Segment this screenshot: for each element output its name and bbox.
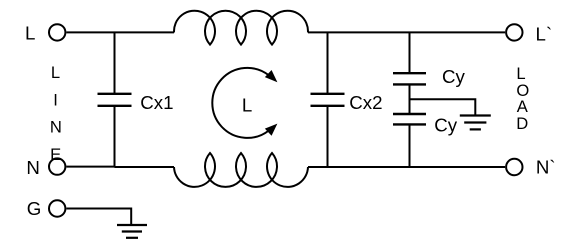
svg-text:Cy: Cy — [434, 114, 457, 135]
wire Cx1 top — [114, 32, 116, 93]
svg-text:L: L — [25, 22, 35, 43]
arrowhead top — [265, 70, 278, 82]
svg-text:L: L — [51, 63, 60, 82]
wire Cy mid — [409, 84, 411, 114]
svg-text:E: E — [50, 145, 61, 164]
svg-text:I: I — [53, 90, 58, 109]
wire choke to N` — [308, 166, 505, 168]
svg-text:L: L — [242, 94, 252, 115]
wire Cy mid to ground — [410, 99, 476, 115]
ground right — [460, 116, 491, 130]
inductor L top winding — [174, 11, 308, 45]
wire Cy1 top — [409, 32, 411, 73]
svg-text:N: N — [26, 157, 39, 178]
wire L to choke — [66, 31, 174, 33]
svg-text:D: D — [516, 114, 528, 133]
capacitor Cy2 — [393, 114, 426, 124]
wire choke to L` — [308, 31, 505, 33]
terminal L` — [506, 24, 522, 40]
svg-text:Cy: Cy — [442, 66, 465, 87]
terminal N` — [506, 159, 522, 175]
ground G — [117, 225, 147, 238]
terminal N — [49, 158, 65, 174]
svg-text:N`: N` — [536, 156, 556, 177]
inductor L bottom winding — [174, 153, 308, 187]
capacitor Cx2 — [311, 94, 345, 106]
terminal G — [49, 200, 65, 216]
coupling arrow arc — [212, 68, 269, 138]
wire Cx2 bottom — [327, 106, 329, 167]
wire Cx1 bottom — [114, 106, 116, 167]
arrowhead bottom — [265, 124, 278, 136]
terminal L — [49, 24, 65, 40]
svg-text:L`: L` — [536, 23, 553, 44]
svg-text:N: N — [50, 118, 62, 137]
wire N to choke — [66, 166, 174, 168]
svg-text:Cx2: Cx2 — [349, 92, 382, 113]
wire G to ground — [66, 209, 131, 226]
capacitor Cy1 — [393, 73, 426, 84]
svg-text:Cx1: Cx1 — [140, 92, 173, 113]
wire Cy2 bottom — [409, 124, 411, 167]
capacitor Cx1 — [98, 94, 132, 106]
wire Cx2 top — [327, 32, 329, 93]
svg-text:G: G — [27, 198, 42, 219]
